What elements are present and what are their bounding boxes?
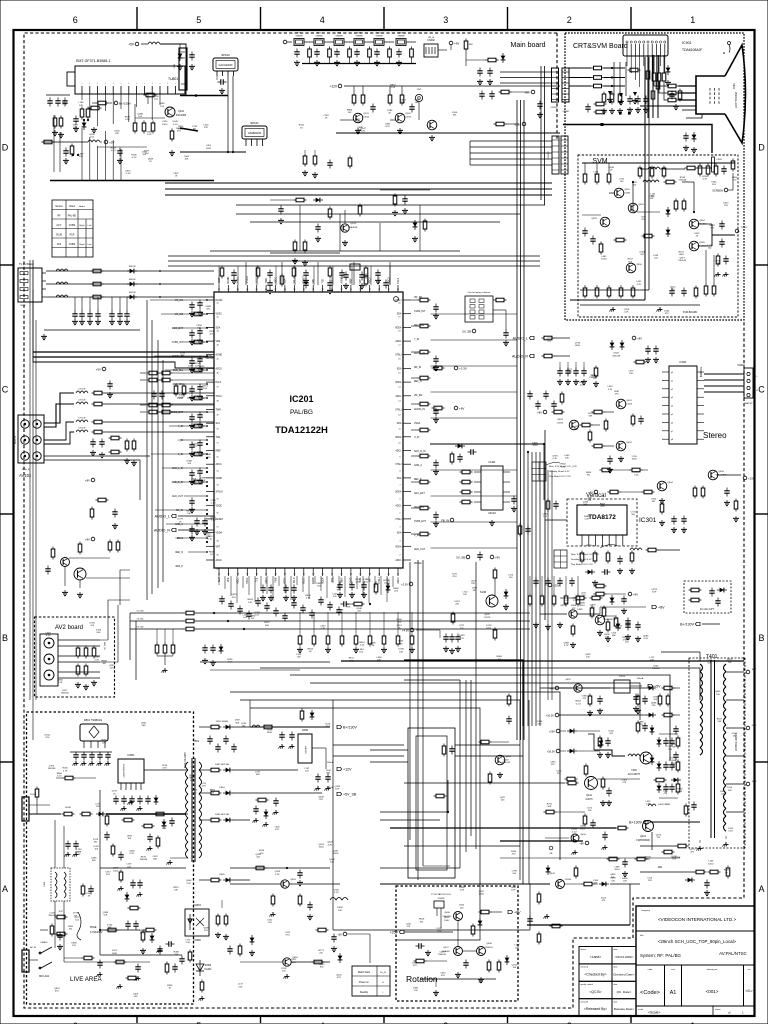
wire xyxy=(543,444,545,500)
svg-text:100: 100 xyxy=(653,699,657,701)
diode D482 xyxy=(657,783,662,793)
inductor L140 xyxy=(76,391,88,393)
resistor R93x xyxy=(607,172,611,185)
svg-text:VDDP: VDDP xyxy=(216,478,223,480)
svg-text:4.7K: 4.7K xyxy=(636,284,641,286)
svg-text:10: 10 xyxy=(398,443,400,445)
svg-text:473: 473 xyxy=(622,782,626,784)
resistor R315 xyxy=(646,548,659,552)
AC inlet CN801 xyxy=(22,797,29,821)
svg-text:CN601: CN601 xyxy=(737,364,745,367)
power terminal AUDIO_L xyxy=(513,336,534,340)
capacitor C902 xyxy=(683,133,688,142)
capacitor C370 xyxy=(337,582,342,591)
svg-text:date: date xyxy=(614,966,619,969)
SP102 pin 3 xyxy=(227,71,229,76)
capacitor C610 xyxy=(607,456,612,465)
resistor R963 xyxy=(619,286,623,299)
diode D805 xyxy=(96,812,106,817)
title block outer frame xyxy=(636,906,755,1016)
svg-text:1K: 1K xyxy=(113,793,116,795)
resistor R391 xyxy=(184,619,197,623)
wire IC901 pin 1 drop xyxy=(626,56,628,66)
resistor R211 xyxy=(486,58,499,62)
ground xyxy=(267,288,273,294)
wire xyxy=(165,369,206,371)
ground xyxy=(197,394,203,400)
diode D105 xyxy=(178,51,183,61)
svg-text:p3: p3 xyxy=(671,397,673,399)
transistor Q854 xyxy=(283,958,291,966)
capacitor C462 xyxy=(691,802,696,811)
transistor Q104 xyxy=(74,568,86,580)
wire cathode 3 xyxy=(679,99,697,101)
inductor L852 xyxy=(330,898,348,901)
svg-text:size: size xyxy=(671,969,676,971)
wire tuner pin 10 drop xyxy=(159,94,161,105)
wire IC901 pin 9 drop xyxy=(660,56,662,66)
ground xyxy=(392,210,398,216)
svg-text:RN#: RN# xyxy=(469,44,474,46)
resistor R4xx xyxy=(662,713,675,717)
IC201 right pin 64 xyxy=(403,340,411,342)
svg-text:473: 473 xyxy=(512,854,516,856)
terminal +8V xyxy=(549,686,558,690)
capacitor C480 xyxy=(663,738,668,747)
wire xyxy=(329,60,331,64)
resistor R475 xyxy=(582,882,595,886)
wire harness 1 xyxy=(470,140,552,142)
bus wire xyxy=(210,250,460,252)
svg-text:XTALI: XTALI xyxy=(216,395,223,398)
svg-text:CVBS_INT: CVBS_INT xyxy=(414,311,426,313)
svg-text:10K: 10K xyxy=(174,890,178,892)
resistor R946 xyxy=(674,199,678,212)
resistor R321 xyxy=(418,324,431,328)
capacitor C111 xyxy=(117,148,122,157)
svg-text:VRT: VRT xyxy=(216,546,221,548)
resistor R196 xyxy=(78,542,82,555)
wire xyxy=(411,60,413,64)
svg-text:<01>: <01> xyxy=(745,989,752,993)
wire cathode 1 xyxy=(679,85,697,87)
diode D4xx xyxy=(646,713,656,718)
svg-text:0.1U: 0.1U xyxy=(57,776,62,778)
svg-text:SW801: SW801 xyxy=(40,942,48,944)
resistor R142 xyxy=(92,420,105,424)
svg-text:AUDIO_R: AUDIO_R xyxy=(512,354,528,358)
transistor Q604 xyxy=(657,481,667,491)
svg-text:100: 100 xyxy=(609,733,613,735)
wire xyxy=(183,341,206,343)
svg-text:473: 473 xyxy=(77,852,81,854)
svg-text:+5V: +5V xyxy=(96,367,101,371)
wire xyxy=(313,266,315,285)
svg-text:7: 7 xyxy=(622,537,624,539)
wire xyxy=(653,55,655,71)
IC201 right pin 73 xyxy=(403,463,411,465)
capacitor C211 xyxy=(487,68,492,77)
svg-text:22K: 22K xyxy=(455,604,459,606)
svg-text:+12V: +12V xyxy=(329,84,337,88)
wire xyxy=(74,297,76,311)
IC201 left pin 46 xyxy=(206,367,214,369)
ground xyxy=(659,498,665,504)
wire xyxy=(362,86,364,93)
capacitor C1610 xyxy=(197,440,202,449)
junction xyxy=(619,112,622,115)
zone tick bottom 5 xyxy=(136,1016,138,1023)
wire xyxy=(59,132,61,172)
diode D806 xyxy=(154,795,159,805)
svg-text:1K: 1K xyxy=(88,895,91,897)
ground xyxy=(202,658,208,664)
wire AV2 out 5 xyxy=(58,671,100,673)
wire xyxy=(559,714,647,716)
svg-text:1N4148: 1N4148 xyxy=(61,693,69,695)
svg-text:PLLS: PLLS xyxy=(294,577,296,583)
transistor Q603 xyxy=(569,420,579,430)
capacitor C478 xyxy=(606,788,611,797)
svg-text:SVM-BOARD: SVM-BOARD xyxy=(683,311,698,314)
resistor R251 xyxy=(494,122,507,126)
wire tuner pin 7 drop xyxy=(128,94,130,122)
wire xyxy=(470,680,472,836)
zone tick bottom 4 xyxy=(260,1016,262,1023)
svg-text:4.7K: 4.7K xyxy=(201,786,206,788)
diode D472 xyxy=(567,749,577,754)
IC201 bottom pin 31 xyxy=(312,568,314,576)
AV101 jack 4 xyxy=(33,436,41,444)
resistor R303 xyxy=(256,266,260,279)
ground xyxy=(600,800,606,806)
svg-text:47U: 47U xyxy=(45,737,49,739)
regulator C802 body xyxy=(298,734,312,763)
wire tuner pin 2 drop xyxy=(89,94,91,113)
svg-text:CN203: CN203 xyxy=(548,151,550,159)
resistor R122 xyxy=(91,295,104,299)
resistor R921 xyxy=(651,89,655,102)
chassis ground xyxy=(284,974,290,979)
svg-text:2.2K: 2.2K xyxy=(94,659,99,661)
capacitor C852 xyxy=(289,732,294,741)
resistor R149 xyxy=(96,498,109,502)
capacitor C491 xyxy=(669,762,674,771)
svg-text:T801: T801 xyxy=(193,739,200,743)
chassis ground xyxy=(270,912,276,917)
wire xyxy=(187,397,206,399)
svg-text:A: A xyxy=(758,884,764,894)
svg-text:5: 5 xyxy=(196,15,201,25)
svg-text:Q605: Q605 xyxy=(718,471,724,473)
ground xyxy=(315,236,321,242)
svg-text:331: 331 xyxy=(640,254,644,256)
capacitor C371 xyxy=(349,582,354,591)
svg-text:KA7812: KA7812 xyxy=(304,746,307,754)
bus wire above IC 1 xyxy=(168,255,540,257)
svg-text:1K: 1K xyxy=(210,554,213,556)
ground xyxy=(342,240,348,246)
ground xyxy=(593,381,599,387)
resistor R816 xyxy=(105,814,109,827)
svg-text:|: | xyxy=(160,83,161,85)
junction xyxy=(601,123,604,126)
svg-text:10K: 10K xyxy=(415,102,419,104)
resistor R210 xyxy=(464,39,468,52)
diode D901 xyxy=(666,65,671,75)
svg-text:REF_N: REF_N xyxy=(175,552,183,554)
capacitor C19x xyxy=(189,470,194,479)
svg-text:Q602: Q602 xyxy=(626,442,632,444)
wire xyxy=(404,679,460,681)
svg-text:of: of xyxy=(728,1011,731,1015)
terminal +5V xyxy=(128,42,139,46)
ground xyxy=(302,170,308,176)
svg-text:100U: 100U xyxy=(679,254,685,256)
svg-text:RF: RF xyxy=(57,215,61,218)
svg-text:SDA: SDA xyxy=(397,367,402,370)
resistor R94x xyxy=(662,166,666,179)
svg-text:56K: 56K xyxy=(547,806,551,808)
IC201 top pin 18 xyxy=(378,285,380,292)
chassis ground xyxy=(121,806,127,811)
svg-text:220: 220 xyxy=(361,130,365,132)
bus wire xyxy=(540,66,542,200)
transistor Q853 xyxy=(281,880,289,888)
transistor Q905 xyxy=(689,241,699,251)
svg-text:GMMB: GMMB xyxy=(356,36,363,38)
wire xyxy=(310,683,640,720)
capacitor C360 xyxy=(260,585,265,594)
wire xyxy=(370,266,372,285)
svg-text:240mA: 240mA xyxy=(637,677,644,680)
capacitor C810 xyxy=(169,818,174,827)
diode D854 xyxy=(223,818,233,823)
svg-text:100U: 100U xyxy=(267,732,273,734)
wire xyxy=(379,223,381,251)
D801 pin 1 xyxy=(83,741,85,748)
IC201 right pin 79 xyxy=(403,545,411,547)
capacitor C853 xyxy=(315,774,320,783)
svg-text:0.1U: 0.1U xyxy=(46,635,51,637)
zone tick bottom 2 xyxy=(507,1016,509,1023)
resistor R40x xyxy=(171,643,175,656)
svg-text:100: 100 xyxy=(333,596,337,598)
SP101 pin 4 xyxy=(262,139,264,146)
capacitor C451 xyxy=(715,598,720,607)
svg-text:SVM: SVM xyxy=(592,158,607,165)
ground xyxy=(231,278,237,284)
resistor R205 xyxy=(410,47,414,60)
svg-text:43: 43 xyxy=(217,331,219,333)
wire xyxy=(673,714,680,716)
resistor R501 xyxy=(76,646,80,659)
IC201 left pin 53 xyxy=(206,463,214,465)
wire IC201 bottom drop 12 xyxy=(284,576,286,593)
flyback tap wire 6 xyxy=(726,811,744,813)
capacitor C301 xyxy=(602,569,611,574)
resistor R493 xyxy=(497,960,501,973)
ground xyxy=(617,568,623,574)
svg-text:C903: C903 xyxy=(716,159,722,161)
bus wire left of IC 3 xyxy=(157,340,159,588)
svg-text:103: 103 xyxy=(243,617,247,619)
svg-text:Q103: Q103 xyxy=(350,223,356,225)
svg-text:scale: scale xyxy=(638,1009,644,1011)
resistor R490 xyxy=(471,924,475,937)
ground xyxy=(397,128,403,134)
IC201 right pin 80 xyxy=(403,559,411,561)
wire xyxy=(147,94,149,104)
wire IC901 pin 10 drop xyxy=(664,56,666,73)
flyback tap wire 2 xyxy=(726,699,744,701)
svg-text:+8V: +8V xyxy=(514,910,521,914)
svg-text:Q407: Q407 xyxy=(443,947,449,949)
svg-text:100: 100 xyxy=(414,990,418,992)
svg-text:D1555: D1555 xyxy=(565,879,572,881)
svg-text:GND_A: GND_A xyxy=(414,464,422,467)
SP101 pin 2 xyxy=(251,139,253,146)
capacitor C3010 xyxy=(339,270,344,279)
svg-text:Left: Left xyxy=(88,224,92,227)
resistor R141 xyxy=(92,402,105,406)
wire IC201 bottom drop 29 xyxy=(386,576,388,602)
svg-text:KSC2383: KSC2383 xyxy=(176,114,187,117)
svg-text:AV:PAL/NTSC: AV:PAL/NTSC xyxy=(719,951,747,956)
svg-text:LIVE AREA: LIVE AREA xyxy=(70,976,103,983)
wire xyxy=(604,615,616,617)
wire xyxy=(411,403,418,405)
ground xyxy=(659,520,665,526)
ground xyxy=(545,624,551,630)
wire xyxy=(431,313,518,315)
chassis ground xyxy=(315,786,321,791)
resistor R250 xyxy=(499,90,512,94)
IC201 left pin 52 xyxy=(206,450,214,452)
svg-text:KA431: KA431 xyxy=(204,968,212,971)
svg-text:+5V: +5V xyxy=(128,42,135,46)
wire xyxy=(347,933,370,935)
diode D241 xyxy=(413,220,418,230)
resistor R115 xyxy=(144,93,157,97)
resistor R370 xyxy=(528,594,532,607)
wire AV101 audio L xyxy=(44,404,74,427)
ferrite bead FB401 xyxy=(549,846,553,850)
svg-text:rev: rev xyxy=(747,968,751,971)
capacitor C476 xyxy=(506,716,511,725)
AV2 jack 2 xyxy=(44,654,54,664)
IC201 top pin 17 xyxy=(369,285,371,292)
ground xyxy=(189,395,195,401)
svg-text:0.1U: 0.1U xyxy=(728,831,733,833)
ground xyxy=(189,423,195,429)
svg-text:<Land>: <Land> xyxy=(590,955,602,959)
wire IC201 bottom drop 19 xyxy=(326,576,328,598)
ground xyxy=(433,469,439,475)
svg-text:104: 104 xyxy=(94,849,98,851)
svg-text:ADC2: ADC2 xyxy=(265,577,268,584)
tuner TU801 body xyxy=(75,66,185,94)
wire xyxy=(177,537,206,539)
capacitor C19x xyxy=(189,330,194,339)
tuner pin 2 xyxy=(89,86,91,94)
chassis ground xyxy=(723,272,729,277)
memory IC401 body xyxy=(481,466,503,510)
svg-text:1UF: 1UF xyxy=(162,828,167,830)
wire xyxy=(435,979,437,987)
svg-text:58: 58 xyxy=(217,541,219,543)
tuner pin 3 xyxy=(97,86,99,94)
capacitor C201 xyxy=(314,49,319,58)
wire xyxy=(81,297,83,311)
wire xyxy=(233,819,251,821)
capacitor C326 xyxy=(433,460,438,469)
svg-text:+8V: +8V xyxy=(637,336,642,340)
capacitor C621 xyxy=(671,516,676,525)
svg-text:100: 100 xyxy=(547,340,551,342)
svg-text:0.1U: 0.1U xyxy=(173,124,178,126)
svg-text:24C32: 24C32 xyxy=(488,511,496,515)
resistor R328 xyxy=(418,506,431,510)
diode D902 xyxy=(666,207,671,217)
wire xyxy=(664,84,666,101)
wire xyxy=(141,43,148,45)
svg-text:1N4148: 1N4148 xyxy=(128,292,136,294)
wire xyxy=(232,76,234,152)
svg-text:U_IN: U_IN xyxy=(414,437,420,439)
resistor R947 xyxy=(682,199,686,212)
ground xyxy=(349,592,355,598)
diode D470 xyxy=(504,589,509,599)
diode D461 xyxy=(650,755,655,765)
resistor R243 xyxy=(293,240,297,253)
wire xyxy=(545,584,547,586)
IC201 top pin 13 xyxy=(331,285,333,292)
svg-text:1K: 1K xyxy=(725,872,728,874)
IC601 pin R7 xyxy=(697,421,704,423)
svg-text:RESET: RESET xyxy=(388,577,390,585)
resistor R949 xyxy=(614,238,627,242)
svg-text:Y_IN: Y_IN xyxy=(414,339,419,341)
wire xyxy=(100,639,108,641)
svg-text:IREF: IREF xyxy=(341,577,343,583)
ground xyxy=(63,158,69,164)
audio bus wire xyxy=(336,132,560,134)
capacitor C401 xyxy=(210,645,215,654)
wire xyxy=(575,362,577,368)
resistor R460 xyxy=(658,694,662,707)
diode D121 xyxy=(127,282,137,287)
zone tick top 5 xyxy=(136,7,138,30)
IC201 left pin 47 xyxy=(206,381,214,383)
svg-text:Note: 3.5V:Mute0 VCC_3.3V: Note: 3.5V:Mute0 VCC_3.3V xyxy=(549,465,577,468)
flyback outline dashed box xyxy=(689,658,745,848)
IC201 top pin 2 xyxy=(227,285,229,292)
wire xyxy=(221,900,223,908)
tuner pin 6 xyxy=(120,86,122,94)
resistor R864 xyxy=(224,914,228,927)
diode D450 xyxy=(717,588,727,593)
svg-text:56: 56 xyxy=(217,513,219,515)
zone tick bottom 1 xyxy=(630,1016,632,1023)
resistor R371 xyxy=(540,594,544,607)
svg-text:SP102: SP102 xyxy=(221,53,230,57)
svg-text:4.7K: 4.7K xyxy=(564,645,569,647)
svg-text:11: 11 xyxy=(399,429,401,431)
terminal B+/130V xyxy=(114,101,130,105)
wire xyxy=(597,778,640,780)
wire xyxy=(199,476,201,478)
